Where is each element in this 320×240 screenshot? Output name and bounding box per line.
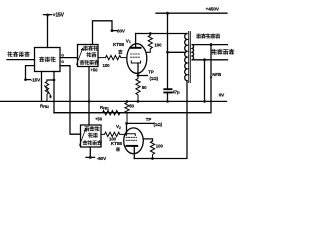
wire TP stub V2: [127, 122, 154, 124]
node cap to bus: [166, 100, 169, 103]
wire driver supply to 60V terminal: [93, 21, 113, 45]
label 音频输入 (audio input): [8, 52, 30, 57]
wire secondary bottom: [192, 59, 227, 61]
label 等 lower: [116, 147, 120, 151]
node center tap tee: [166, 51, 169, 54]
svg-text:100: 100: [156, 143, 164, 148]
wire splitter output 2 to lower driver: [60, 66, 81, 135]
svg-text:G: G: [61, 60, 64, 64]
resistor grid stopper 100 (V1): [98, 55, 127, 59]
svg-text:+50: +50: [95, 117, 103, 122]
tube V1 plate: [130, 47, 140, 49]
NFB arrow: [210, 77, 213, 81]
svg-text:-15V: -15V: [31, 77, 41, 82]
svg-text:V2: V2: [116, 124, 121, 130]
label 驱动器 组件 偏量调节 (upper): [80, 46, 98, 65]
wire 0V bus: [0, 100, 227, 102]
node 60V terminal: [111, 29, 114, 32]
svg-text:+15V: +15V: [53, 13, 65, 19]
wire splitter output 1 to driver: [60, 57, 78, 59]
wire audio input: [7, 59, 35, 61]
node +50 line on 0V bus: [88, 100, 91, 103]
wire RFB2 top: [47, 79, 54, 81]
wire V2 screen: [144, 139, 153, 141]
resistor RFB2 (variable): [45, 80, 48, 101]
svg-text:(1Ω): (1Ω): [154, 122, 163, 127]
node -60V terminal: [89, 156, 92, 159]
tube V1 envelope: [127, 44, 147, 74]
adjust arrow upper driver: [77, 48, 83, 64]
svg-text:RFB2: RFB2: [40, 103, 49, 109]
resistor cathode 50 (V2): [125, 101, 129, 123]
driver module box U2: [78, 45, 99, 67]
wire splitter ground pin to 0V bus: [41, 72, 43, 102]
capacitor C1 47u: [164, 88, 171, 90]
tube V1 cathode: [131, 61, 140, 63]
node NFB tap: [210, 43, 213, 46]
node RFB2 top junction: [53, 79, 56, 82]
node V2 cathode junction: [125, 122, 128, 125]
wire HT drop to center tap and filter cap: [167, 13, 169, 88]
wire NFB feedback line: [54, 45, 211, 113]
adjust arrow lower driver: [80, 129, 86, 145]
svg-text:KT88: KT88: [111, 141, 123, 146]
node secondary bottom ground tap: [203, 58, 206, 61]
resistor screen 100 (V2): [150, 141, 154, 159]
node V1 cathode resistor on bus: [137, 100, 140, 103]
wire -15V feed to splitter: [26, 66, 35, 80]
svg-text:47μ: 47μ: [172, 89, 180, 94]
node V1 cathode junction: [137, 74, 140, 77]
svg-text:50: 50: [142, 85, 147, 90]
tube V2 cathode: [126, 134, 135, 136]
tube V2 grids: [126, 137, 137, 140]
svg-text:+50: +50: [91, 67, 99, 72]
resistor RFB1: [54, 111, 211, 115]
wire splitter feedback pin down to NFB line: [53, 72, 55, 113]
svg-text:NFB: NFB: [212, 72, 222, 77]
svg-text:KT88: KT88: [113, 42, 125, 47]
svg-text:TP: TP: [148, 70, 154, 75]
wire +50 supply line between driver modules: [88, 67, 90, 126]
svg-text:-60V: -60V: [97, 156, 107, 161]
svg-text:(1Ω): (1Ω): [150, 76, 159, 81]
node plate/screen resistor junction: [149, 32, 152, 35]
label 分相器: [40, 57, 56, 62]
node secondary ground on bus: [203, 100, 206, 103]
wire lower driver to -60V terminal: [89, 147, 91, 157]
svg-text:100: 100: [103, 63, 111, 68]
svg-text:+450V: +450V: [206, 6, 220, 12]
svg-text:TP: TP: [146, 117, 152, 122]
label 等 upper: [118, 50, 122, 54]
wire V2 plate to transformer primary bottom: [134, 81, 187, 159]
svg-text:V1: V1: [126, 38, 131, 44]
tube V2 plate: [127, 145, 138, 147]
tube V2 envelope: [124, 128, 144, 154]
wire V1 plate to transformer: [136, 33, 187, 35]
svg-text:60V: 60V: [117, 29, 126, 34]
svg-text:G: G: [61, 53, 64, 57]
transformer T1 secondary: [192, 45, 193, 60]
resistor grid stopper 100 (V2): [101, 132, 124, 136]
svg-text:50: 50: [129, 103, 134, 108]
svg-text:100: 100: [154, 42, 162, 47]
wire secondary ground: [204, 60, 206, 102]
label 喇叭输出 (speaker output): [212, 49, 234, 54]
label 驱动器 组件 偏量调节 (lower): [83, 126, 101, 145]
wire secondary top / speaker hot: [192, 44, 227, 46]
transformer T1 primary: [185, 34, 187, 81]
node V2 cathode resistor on bus: [126, 100, 129, 103]
+15V supply terminal: [44, 14, 52, 48]
resistor screen 100 (V1): [147, 34, 153, 53]
transformer core: [189, 32, 191, 83]
label 输出变压器: [197, 34, 220, 39]
resistor cathode 50 (V1): [136, 76, 140, 102]
svg-text:RFB1: RFB1: [100, 105, 109, 111]
wire to primary center tap: [168, 51, 186, 53]
driver module box U3 (lower): [81, 125, 102, 147]
-15V terminal: [24, 78, 27, 81]
node HT rail junction: [166, 12, 169, 15]
wire +450V rail: [156, 12, 227, 14]
phase splitter box U1: [35, 48, 61, 72]
node screen resistor on plate line: [151, 157, 154, 160]
tube V1 grids: [131, 54, 141, 57]
wire TP stub V1: [138, 75, 148, 77]
